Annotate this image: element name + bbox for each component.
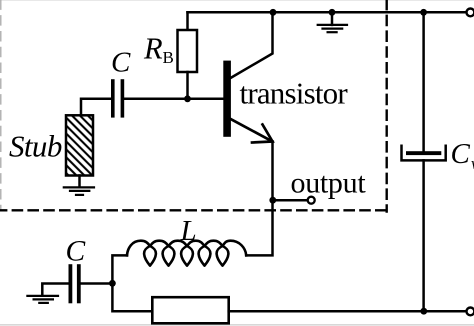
inductor L coil xyxy=(127,241,246,266)
transistor collector xyxy=(231,12,273,78)
faint bottom crop line xyxy=(0,324,474,326)
svg-text:C: C xyxy=(66,236,86,268)
ground (bottom-left) xyxy=(27,296,58,303)
dashed boundary vertical xyxy=(386,0,388,212)
dashed boundary left edge xyxy=(0,0,2,210)
capacitor Cv top plate xyxy=(406,151,441,155)
wire RB bottom xyxy=(186,72,189,99)
wire RB top xyxy=(186,12,189,30)
wire C to stub xyxy=(81,99,111,116)
svg-text:R: R xyxy=(143,32,163,66)
transistor emitter xyxy=(231,119,273,142)
ground (top) xyxy=(331,12,334,25)
wire output tap xyxy=(273,199,308,202)
node base junction xyxy=(184,95,191,102)
node tank junction xyxy=(109,280,116,287)
ground (stub) xyxy=(64,187,94,195)
capacitor C top-left xyxy=(113,81,123,116)
wire C to node xyxy=(81,282,113,285)
wire emitter down xyxy=(271,142,274,201)
node collector-rail xyxy=(270,9,277,16)
wire coil right up to output node xyxy=(246,200,272,255)
wire node down to resistor xyxy=(112,283,152,311)
svg-text:transistor: transistor xyxy=(240,76,349,111)
wire base xyxy=(124,98,224,101)
node output junction xyxy=(269,197,276,204)
svg-text:output: output xyxy=(291,167,367,200)
node ground-rail xyxy=(329,9,336,16)
wire Cv bottom xyxy=(422,160,425,311)
terminal output xyxy=(308,197,315,204)
resistor (bottom) xyxy=(152,297,228,323)
node Cv-bottom rail xyxy=(420,308,427,315)
svg-text:B: B xyxy=(163,48,174,67)
node Cv-rail xyxy=(420,9,427,16)
faint top crop line xyxy=(0,0,474,2)
svg-text:C: C xyxy=(111,47,131,79)
wire top rail xyxy=(188,11,467,14)
svg-text:C: C xyxy=(451,138,471,170)
wire Cv top xyxy=(422,12,425,151)
capacitor Cv bottom bracket xyxy=(402,146,446,161)
svg-text:L: L xyxy=(180,215,197,247)
capacitor C bottom-left xyxy=(70,266,78,301)
terminal top right xyxy=(467,9,474,17)
wire ground to C xyxy=(42,284,68,295)
emitter arrowhead xyxy=(252,125,273,143)
transistor Q1 base bar xyxy=(223,61,231,137)
wire stub to ground xyxy=(78,176,81,188)
svg-text:Stub: Stub xyxy=(9,129,62,164)
dashed boundary horizontal xyxy=(0,209,388,211)
resistor RB xyxy=(178,30,198,72)
terminal bottom right xyxy=(467,308,474,316)
wire node up to coil xyxy=(112,255,127,283)
wire bottom rail xyxy=(229,310,467,313)
